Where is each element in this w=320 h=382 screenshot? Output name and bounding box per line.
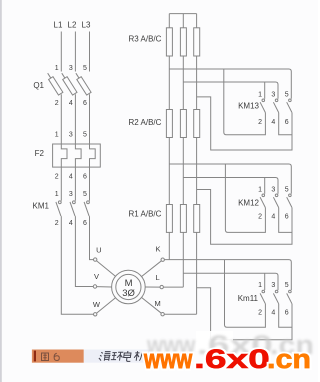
svg-text:6: 6 xyxy=(285,310,289,317)
svg-text:R3 A/B/C: R3 A/B/C xyxy=(129,35,162,44)
wire column B R2 to R1 xyxy=(182,138,184,205)
wire column A R1 to K node xyxy=(168,232,170,259)
contactor KM1 pole 2 contact xyxy=(70,201,75,216)
contactor KM13 contact 1 xyxy=(260,99,265,113)
svg-text:Km11: Km11 xyxy=(238,294,259,303)
caption text slip-ring motor (Chinese glyph strokes) xyxy=(98,351,147,361)
wire terminal V to motor xyxy=(97,286,112,288)
contactor KM13 contact 5 xyxy=(287,99,292,113)
svg-text:3: 3 xyxy=(271,282,275,289)
svg-text:1: 1 xyxy=(55,191,59,198)
wire Km11 loop net K to contact1 bottom xyxy=(225,260,266,328)
wire KM13 loop net A to contact1 bottom xyxy=(224,69,266,135)
svg-text:2: 2 xyxy=(55,173,59,180)
contactor KM1 pole 3 contact xyxy=(84,201,89,216)
svg-text:3: 3 xyxy=(271,92,275,99)
wire motor to terminal L xyxy=(145,286,160,288)
contactor Km11 contact 3 xyxy=(273,290,278,304)
svg-text:3: 3 xyxy=(69,132,73,139)
wire KM1 pole1 to motor terminal W xyxy=(61,216,93,314)
svg-text:6: 6 xyxy=(83,173,87,180)
node L1 xyxy=(54,21,63,30)
svg-text:5: 5 xyxy=(83,191,87,198)
wire column A R3 to R2 xyxy=(168,56,170,110)
svg-text:1: 1 xyxy=(258,187,262,194)
resistor R2A xyxy=(166,110,172,138)
wire KM12 contact3 bottom lead xyxy=(279,208,292,233)
svg-text:5: 5 xyxy=(285,282,289,289)
svg-text:3Ø: 3Ø xyxy=(122,288,135,299)
resistor R3B xyxy=(180,28,186,56)
svg-text:1: 1 xyxy=(258,92,262,99)
svg-text:2: 2 xyxy=(258,119,262,126)
svg-text:1: 1 xyxy=(55,132,59,139)
node L3 xyxy=(82,21,91,30)
wire terminal W to motor xyxy=(97,298,116,314)
wire L node to column B xyxy=(163,286,183,288)
wire KM13 contact1 top lead xyxy=(264,82,266,99)
star point bar joining R3 tops xyxy=(169,14,196,28)
wire L2 to Q1 xyxy=(74,32,76,72)
contactor KM12 contact 1 xyxy=(260,194,265,208)
svg-text:KM12: KM12 xyxy=(238,199,259,208)
wire KM1 pole2 to motor terminal V xyxy=(75,216,93,286)
wire Km11 contact1 top lead xyxy=(264,273,266,290)
figure caption light block xyxy=(84,350,150,363)
wire column B R1 to L node xyxy=(182,232,184,287)
wire column C R2 to R1 xyxy=(196,138,198,205)
svg-text:4: 4 xyxy=(271,213,275,220)
svg-text:2: 2 xyxy=(258,310,262,317)
contactor KM1 pole 1 contact xyxy=(56,201,61,216)
svg-text:5: 5 xyxy=(285,187,289,194)
svg-text:2: 2 xyxy=(55,100,59,107)
left page edge shading xyxy=(0,0,2,382)
terminal U xyxy=(94,258,97,261)
contactor KM13 contact 3 xyxy=(273,99,278,113)
svg-text:M: M xyxy=(154,299,160,308)
svg-text:L: L xyxy=(156,273,160,282)
node L2 xyxy=(68,21,77,30)
svg-text:2: 2 xyxy=(55,220,59,227)
wire KM13 net B rail xyxy=(183,82,278,99)
resistor R1C xyxy=(194,205,200,233)
svg-text:R2 A/B/C: R2 A/B/C xyxy=(129,118,162,127)
wire KM13 net A top rail xyxy=(169,69,291,99)
svg-text:KM1: KM1 xyxy=(33,201,50,210)
wire KM12 loop net A to contact1 bottom xyxy=(225,164,265,232)
breaker Q1 pole 2 blade xyxy=(60,72,77,95)
figure caption orange block xyxy=(32,350,84,363)
wire Km11 net B rail xyxy=(183,273,278,290)
svg-text:5: 5 xyxy=(83,132,87,139)
figure caption text 图 6 xyxy=(42,353,60,361)
svg-text:V: V xyxy=(94,272,99,281)
terminal W xyxy=(94,313,97,316)
wire column A R2 to R1 xyxy=(168,138,170,205)
wire column C R1 to M node xyxy=(196,232,198,314)
svg-text:4: 4 xyxy=(271,119,275,126)
svg-text:4: 4 xyxy=(69,100,73,107)
contactor Km11 contact 1 xyxy=(260,290,265,304)
wire terminal U to motor xyxy=(97,261,116,277)
resistor R1B xyxy=(180,205,186,233)
wire Q1 to F2 phase1 with heater element xyxy=(61,94,67,201)
wire KM13 contact3 bottom lead xyxy=(279,113,292,135)
resistor R1A xyxy=(166,205,172,233)
wire KM13 net C jog xyxy=(197,97,292,150)
terminal V xyxy=(93,285,96,288)
svg-text:K: K xyxy=(155,245,160,254)
wire motor to terminal M xyxy=(142,298,162,314)
svg-text:www: www xyxy=(143,345,193,375)
resistor R2C xyxy=(194,110,200,138)
wire column C R3 to R2 xyxy=(196,56,198,110)
svg-text:4: 4 xyxy=(69,220,73,227)
contactor KM12 contact 5 xyxy=(287,194,292,208)
wire Km11 contact3 bottom lead xyxy=(279,304,292,327)
wire L3 to Q1 xyxy=(89,32,91,72)
wire motor to terminal K xyxy=(142,261,162,277)
thermal relay F2 box xyxy=(53,144,101,167)
svg-text:Q1: Q1 xyxy=(33,81,44,90)
terminal L xyxy=(160,285,163,288)
svg-text:6: 6 xyxy=(285,213,289,220)
terminal K xyxy=(161,258,164,261)
wire L1 to Q1 xyxy=(60,32,62,72)
svg-text:4: 4 xyxy=(271,310,275,317)
resistor R3A xyxy=(166,28,172,56)
breaker Q1 pole 3 blade xyxy=(74,72,91,95)
wire column B R3 to R2 xyxy=(182,56,184,110)
svg-text:1: 1 xyxy=(55,65,59,72)
wire KM12 net B rail xyxy=(183,178,278,194)
svg-text:L2: L2 xyxy=(68,21,77,30)
svg-text:L3: L3 xyxy=(82,21,91,30)
svg-text:.6x0: .6x0 xyxy=(194,345,270,374)
svg-text:.cn: .cn xyxy=(267,345,311,375)
svg-text:4: 4 xyxy=(69,173,73,180)
wire Q1 to F2 phase2 with heater element xyxy=(75,94,81,201)
svg-text:6: 6 xyxy=(83,220,87,227)
wire Q1 to F2 phase3 with heater element xyxy=(90,94,96,201)
resistor R3C xyxy=(194,28,200,56)
svg-text:F2: F2 xyxy=(35,149,45,158)
svg-text:3: 3 xyxy=(69,65,73,72)
svg-text:W: W xyxy=(93,300,101,309)
breaker Q1 pole 1 blade xyxy=(45,72,62,95)
svg-text:KM13: KM13 xyxy=(238,102,259,111)
svg-text:U: U xyxy=(96,245,101,254)
svg-text:6: 6 xyxy=(83,100,87,107)
wire Km11 net M jog xyxy=(197,288,292,340)
wire KM12 net C jog xyxy=(197,190,292,245)
wire KM12 net A top rail xyxy=(169,164,291,194)
svg-text:6: 6 xyxy=(285,119,289,126)
svg-text:R1 A/B/C: R1 A/B/C xyxy=(129,209,162,218)
motor M 3-phase inner circle xyxy=(116,274,141,299)
resistor R2B xyxy=(180,110,186,138)
svg-text:5: 5 xyxy=(83,65,87,72)
wire KM12 contact1 top lead xyxy=(264,178,266,194)
svg-text:L1: L1 xyxy=(54,21,63,30)
svg-text:2: 2 xyxy=(258,213,262,220)
contactor KM12 contact 3 xyxy=(273,194,278,208)
contactor Km11 contact 5 xyxy=(287,290,292,304)
svg-text:3: 3 xyxy=(69,191,73,198)
motor M 3-phase outer circle xyxy=(112,270,146,304)
svg-text:5: 5 xyxy=(285,92,289,99)
wire KM1 pole3 to motor terminal U xyxy=(90,216,94,260)
terminal M xyxy=(161,313,164,316)
figure caption red tick xyxy=(34,351,36,362)
svg-text:3: 3 xyxy=(271,187,275,194)
svg-text:1: 1 xyxy=(258,282,262,289)
wire K node rail to Km11 contact5 xyxy=(164,260,291,290)
wire M node to column C xyxy=(164,313,196,315)
